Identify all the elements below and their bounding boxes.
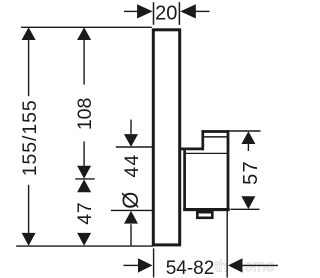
watermark <box>215 258 275 276</box>
arrow up 57 <box>241 131 255 144</box>
dimension 20 ext line right <box>178 2 180 25</box>
dimension 108 line <box>83 40 85 85</box>
label 47 <box>74 202 96 225</box>
shoulder line <box>181 147 203 150</box>
cap inner line <box>204 136 227 138</box>
20 right tail <box>196 10 210 12</box>
dimension 20 ext line left <box>153 2 155 25</box>
54-82 left tail <box>124 264 139 266</box>
arrow up 108 <box>77 27 91 40</box>
label 57 <box>240 160 262 185</box>
arrow up 155 <box>22 27 36 40</box>
svg-text:20: 20 <box>155 3 177 25</box>
tick D44 top <box>116 146 152 148</box>
20 left tail <box>124 10 137 12</box>
arrow left 20 <box>180 4 196 18</box>
svg-text:th: th <box>215 259 228 276</box>
svg-text:eme: eme <box>244 258 274 275</box>
svg-text:155/155: 155/155 <box>19 99 41 176</box>
label 108 <box>74 98 96 131</box>
arrow down 155 <box>22 233 36 246</box>
svg-text:47: 47 <box>74 202 96 225</box>
57 ext line bottom <box>231 208 260 210</box>
57 ext line top <box>230 130 261 132</box>
54-82 right tail <box>243 264 279 266</box>
tick at 108/47 junction <box>75 178 94 180</box>
arrow up D44 <box>124 211 138 224</box>
tab <box>197 212 212 218</box>
tick D44 bottom <box>111 209 152 211</box>
arrow down 57 <box>241 196 255 209</box>
cap top edge <box>202 130 230 133</box>
arrow right 54-82 <box>138 258 153 272</box>
dimension D44 upper leader <box>130 120 132 134</box>
bottom reference line <box>16 245 153 247</box>
trim plate <box>153 30 179 245</box>
body bottom edge <box>183 208 230 211</box>
svg-text:54-82: 54-82 <box>166 258 215 278</box>
label diameter <box>118 192 143 209</box>
svg-text:57: 57 <box>240 160 262 185</box>
arrow down D44 <box>124 134 138 147</box>
body left edge <box>183 148 186 211</box>
54-82 ext line left <box>153 248 155 277</box>
svg-text:44: 44 <box>121 154 143 178</box>
arrow down 47 <box>77 233 91 246</box>
54-82 ext line right <box>226 209 228 277</box>
arrow down 108 (hourglass top) <box>77 166 91 179</box>
cap left edge <box>201 130 204 150</box>
body right edge <box>227 130 230 211</box>
svg-text:Ø: Ø <box>118 192 143 209</box>
arrow up 47 (hourglass bottom) <box>77 179 91 192</box>
arrow right 20 <box>137 4 153 18</box>
body inner top line <box>186 152 227 154</box>
57 dim line <box>247 144 249 151</box>
label 155/155 <box>19 99 41 176</box>
dimension 155/155 line <box>28 40 30 97</box>
label 44 <box>121 154 143 178</box>
svg-text:108: 108 <box>74 98 96 131</box>
top reference line <box>21 26 152 28</box>
arrow left 54-82 <box>228 258 243 272</box>
D44 lower leader <box>130 224 132 245</box>
